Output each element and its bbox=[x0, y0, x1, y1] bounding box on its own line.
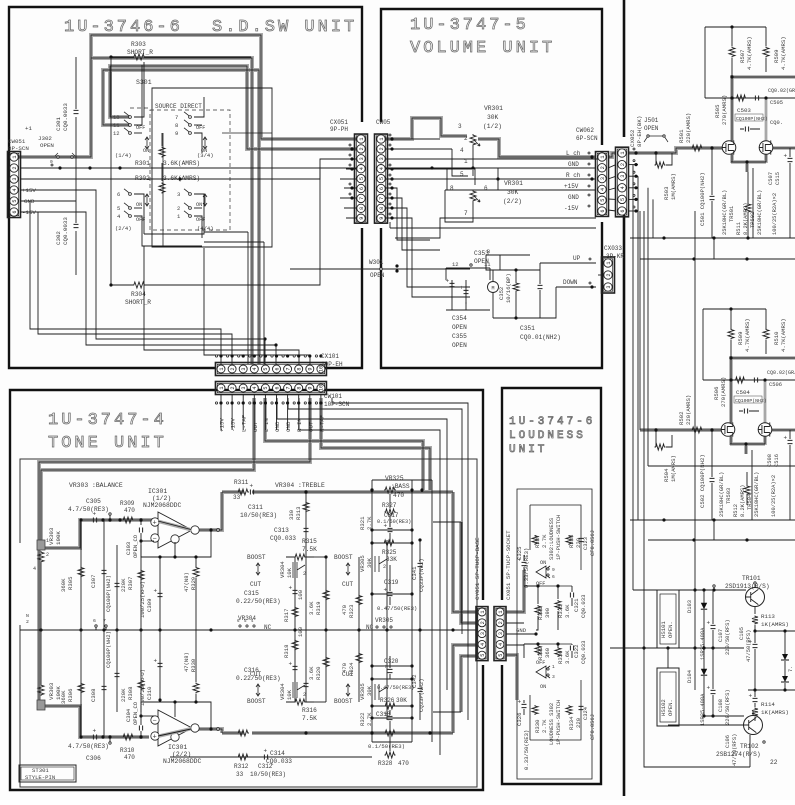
svg-text:R309: R309 bbox=[120, 500, 135, 507]
capacitor C351 bbox=[538, 285, 543, 288]
svg-text:CQ100P(NH2): CQ100P(NH2) bbox=[105, 575, 112, 612]
bottom edge R312 C312 bbox=[170, 756, 372, 758]
svg-text:9: 9 bbox=[552, 567, 555, 573]
svg-text:3.6K: 3.6K bbox=[308, 666, 315, 680]
svg-text:+: + bbox=[153, 734, 157, 742]
capacitor C354 C355 OPEN bbox=[450, 283, 455, 286]
svg-text:8.2K(AMRS): 8.2K(AMRS) bbox=[740, 485, 746, 517]
svg-text:470: 470 bbox=[393, 492, 404, 499]
svg-text:OPEN.: OPEN. bbox=[667, 621, 674, 638]
wire pin6 -15V bbox=[20, 212, 86, 300]
svg-text:47(N8): 47(N8) bbox=[183, 652, 190, 672]
svg-text:0.1/50(RE3): 0.1/50(RE3) bbox=[377, 519, 411, 525]
svg-text:VR325: VR325 bbox=[385, 475, 404, 482]
svg-text:9: 9 bbox=[379, 217, 385, 220]
svg-text:22: 22 bbox=[770, 759, 778, 766]
svg-text:C301: C301 bbox=[55, 117, 62, 131]
svg-text:C306: C306 bbox=[86, 755, 101, 762]
svg-text:3: 3 bbox=[498, 632, 504, 635]
svg-text:1: 1 bbox=[606, 261, 612, 264]
svg-text:1: 1 bbox=[464, 158, 468, 165]
svg-text:C505: C505 bbox=[770, 100, 783, 106]
svg-text:10: 10 bbox=[319, 385, 325, 391]
svg-text:360K: 360K bbox=[60, 690, 67, 704]
svg-text:R328: R328 bbox=[378, 760, 393, 767]
svg-text:1SR35-400A: 1SR35-400A bbox=[700, 627, 706, 660]
tone center line bbox=[20, 629, 477, 631]
svg-text:2: 2 bbox=[464, 135, 468, 142]
svg-text:GND: GND bbox=[274, 421, 281, 432]
svg-text:33K: 33K bbox=[386, 556, 397, 563]
svg-text:C515: C515 bbox=[775, 172, 781, 185]
svg-text:R313: R313 bbox=[295, 507, 302, 520]
svg-text:8P-EH(BK): 8P-EH(BK) bbox=[636, 116, 643, 147]
svg-text:6: 6 bbox=[552, 574, 555, 580]
svg-text:10/16(BP): 10/16(BP) bbox=[505, 273, 512, 303]
svg-text:CX051 5P-TUCP-SOCKET: CX051 5P-TUCP-SOCKET bbox=[505, 530, 512, 600]
resistor R330 2.7K bbox=[532, 705, 538, 715]
svg-text:6: 6 bbox=[379, 187, 385, 190]
svg-text:CW101: CW101 bbox=[324, 393, 342, 400]
R channel mirror - pot VR303 2/2 bbox=[37, 700, 45, 710]
svg-text:11: 11 bbox=[113, 122, 120, 129]
svg-text:OUT: OUT bbox=[252, 421, 259, 432]
resistor R114 1K bbox=[752, 708, 758, 717]
svg-text:270(AMRS): 270(AMRS) bbox=[721, 95, 728, 125]
svg-text:470: 470 bbox=[124, 507, 135, 514]
svg-text:30K: 30K bbox=[366, 685, 373, 696]
svg-text:C319: C319 bbox=[384, 579, 399, 586]
svg-text:C506: C506 bbox=[769, 382, 782, 388]
svg-text:R114: R114 bbox=[761, 701, 775, 708]
svg-text:R501: R501 bbox=[678, 129, 685, 143]
svg-text:1: 1 bbox=[480, 610, 486, 613]
svg-text:R504: R504 bbox=[663, 468, 670, 482]
resistor R324 470 bbox=[358, 630, 360, 702]
svg-text:IC301: IC301 bbox=[168, 744, 187, 751]
svg-text:5: 5 bbox=[12, 199, 18, 202]
svg-text:C503: C503 bbox=[737, 107, 751, 114]
svg-text:4: 4 bbox=[480, 643, 486, 646]
svg-text:4: 4 bbox=[620, 186, 626, 189]
svg-text:4.7K(AMRS): 4.7K(AMRS) bbox=[746, 36, 753, 70]
svg-text:+: + bbox=[446, 278, 450, 285]
svg-text:6: 6 bbox=[93, 618, 96, 624]
svg-text:CUT: CUT bbox=[250, 581, 261, 588]
S.D.SW unit box bbox=[9, 7, 362, 368]
feedback loop R bbox=[141, 702, 211, 728]
svg-text:C307: C307 bbox=[90, 575, 97, 588]
svg-text:OPEN.: OPEN. bbox=[667, 699, 674, 716]
svg-text:VR305: VR305 bbox=[359, 683, 366, 700]
svg-text:+: + bbox=[153, 520, 157, 528]
TR101 emitter chain bbox=[754, 607, 756, 614]
svg-text:R113: R113 bbox=[761, 613, 775, 620]
svg-text:C351: C351 bbox=[520, 325, 535, 332]
svg-text:100/25(R2A)×2: 100/25(R2A)×2 bbox=[772, 193, 778, 235]
svg-text:BOOST: BOOST bbox=[247, 554, 266, 561]
svg-text:9P-PH: 9P-PH bbox=[330, 126, 348, 133]
svg-text:C305: C305 bbox=[86, 498, 101, 505]
svg-text:NJM2068DDC: NJM2068DDC bbox=[163, 758, 202, 765]
VOLUME unit box bbox=[381, 9, 602, 368]
svg-text:220/50(RFS): 220/50(RFS) bbox=[725, 689, 731, 725]
svg-text:2: 2 bbox=[606, 273, 612, 276]
capacitor C323 CF0.056J bbox=[579, 538, 584, 541]
svg-text:(2/4): (2/4) bbox=[115, 225, 132, 232]
svg-text:R509: R509 bbox=[773, 50, 780, 63]
svg-text:47/50(RFS): 47/50(RFS) bbox=[732, 734, 738, 766]
svg-text:3: 3 bbox=[379, 157, 385, 160]
svg-text:4.7K(AMRS): 4.7K(AMRS) bbox=[780, 36, 787, 70]
svg-text:10P-SCN: 10P-SCN bbox=[324, 401, 350, 408]
svg-text:TR501: TR501 bbox=[729, 206, 735, 222]
svg-text:12: 12 bbox=[113, 130, 120, 137]
NC stubs left bbox=[95, 625, 97, 627]
svg-text:C303: C303 bbox=[125, 542, 132, 555]
svg-text:BOOST: BOOST bbox=[334, 698, 353, 705]
long verticals from CX052 bbox=[644, 211, 750, 767]
svg-text:2: 2 bbox=[12, 166, 18, 169]
svg-text:TONE UNIT: TONE UNIT bbox=[48, 434, 167, 453]
svg-text:CQ0.02(GR/BL): CQ0.02(GR/BL) bbox=[767, 370, 795, 376]
svg-text:DOWN: DOWN bbox=[563, 279, 578, 286]
connector CW051 8P-SCN left bbox=[8, 152, 21, 218]
svg-text:CQ0.0033: CQ0.0033 bbox=[62, 217, 69, 245]
svg-text:SOURCE DIRECT: SOURCE DIRECT bbox=[155, 103, 202, 110]
svg-text:R503: R503 bbox=[663, 187, 670, 200]
svg-text:2: 2 bbox=[177, 205, 180, 212]
svg-text:+: + bbox=[749, 693, 753, 700]
svg-text:30K: 30K bbox=[366, 557, 373, 568]
svg-text:+: + bbox=[93, 511, 97, 518]
svg-text:R312: R312 bbox=[234, 763, 249, 770]
svg-text:100: 100 bbox=[297, 626, 304, 637]
feedback loop bbox=[141, 531, 211, 557]
pot VR303 wire to center bbox=[40, 577, 42, 630]
resistor R333 220 bbox=[566, 535, 572, 545]
connector CW062 6P-SCN bbox=[596, 152, 609, 217]
svg-text:2: 2 bbox=[26, 619, 29, 625]
cap near motor bbox=[513, 282, 519, 292]
resistor R304 SHORT_R bbox=[133, 282, 146, 288]
push switch L symbol bbox=[536, 566, 550, 578]
svg-text:R330: R330 bbox=[534, 719, 541, 733]
svg-text:TR101: TR101 bbox=[742, 575, 761, 582]
svg-text:2SD1913(R/S): 2SD1913(R/S) bbox=[725, 583, 770, 590]
svg-text:1: 1 bbox=[379, 137, 385, 140]
HS101 OPEN box bbox=[657, 590, 679, 648]
svg-text:8: 8 bbox=[379, 207, 385, 210]
svg-text:+: + bbox=[289, 661, 293, 668]
svg-text:4: 4 bbox=[252, 386, 258, 389]
page divider bbox=[623, 0, 626, 796]
svg-text:6: 6 bbox=[620, 209, 626, 212]
HS102 OPEN box bbox=[657, 668, 679, 726]
svg-text:8P-SCN: 8P-SCN bbox=[8, 145, 29, 152]
svg-text:TR102: TR102 bbox=[740, 743, 759, 750]
svg-text:CF0.056J: CF0.056J bbox=[590, 530, 596, 556]
svg-text:C342: C342 bbox=[411, 675, 418, 688]
svg-text:+: + bbox=[384, 523, 388, 530]
svg-text:R301: R301 bbox=[135, 160, 150, 167]
svg-text:C507: C507 bbox=[768, 172, 774, 185]
transistor TR102 bbox=[744, 716, 763, 735]
svg-text:−: − bbox=[153, 536, 157, 544]
svg-text:HS101: HS101 bbox=[660, 621, 667, 638]
svg-text:CW05: CW05 bbox=[376, 119, 391, 126]
svg-text:1K(AMRS): 1K(AMRS) bbox=[761, 709, 789, 716]
svg-text:R506: R506 bbox=[713, 387, 720, 400]
svg-text:C354: C354 bbox=[452, 315, 467, 322]
svg-text:CQ100P(NH2): CQ100P(NH2) bbox=[105, 631, 112, 668]
SOURCE DIRECT dashed box bbox=[150, 110, 230, 230]
svg-text:2: 2 bbox=[230, 367, 236, 370]
svg-text:CUT: CUT bbox=[342, 671, 353, 678]
capacitor C321 CQ0.033 bbox=[570, 593, 573, 598]
svg-text:+: + bbox=[460, 285, 464, 292]
resistor R509 4.7K bbox=[763, 47, 769, 58]
svg-text:C322: C322 bbox=[573, 645, 580, 658]
svg-text:CQ0.01(NH2): CQ0.01(NH2) bbox=[520, 334, 561, 341]
svg-text:7: 7 bbox=[175, 114, 178, 121]
switch block S301 outline bbox=[152, 88, 272, 247]
svg-text:R509: R509 bbox=[737, 332, 744, 345]
svg-text:7.5K: 7.5K bbox=[302, 546, 317, 553]
svg-text:C313: C313 bbox=[274, 527, 289, 534]
wire R303 row bbox=[111, 56, 133, 58]
svg-text:CQ0.: CQ0. bbox=[770, 120, 783, 126]
svg-text:8: 8 bbox=[297, 367, 303, 370]
svg-text:HS102: HS102 bbox=[660, 699, 667, 716]
resistor R305 360K bbox=[80, 520, 82, 630]
resistor R325 33K bbox=[372, 530, 412, 594]
svg-text:47/50(RFS): 47/50(RFS) bbox=[746, 630, 752, 662]
svg-text:CF0.056J: CF0.056J bbox=[590, 714, 596, 740]
svg-text:R303: R303 bbox=[131, 41, 146, 48]
black verticals mid bundle bbox=[247, 232, 249, 364]
svg-text:10: 10 bbox=[113, 114, 120, 121]
svg-text:ON: ON bbox=[136, 202, 142, 208]
svg-text:R337: R337 bbox=[534, 535, 541, 548]
svg-text:30K: 30K bbox=[396, 697, 407, 704]
wire pin5 GND bbox=[20, 200, 76, 202]
svg-text:VR301: VR301 bbox=[484, 105, 503, 112]
svg-text:GND: GND bbox=[285, 421, 292, 432]
svg-text:-15V: -15V bbox=[230, 418, 237, 432]
mid node row bbox=[748, 689, 795, 691]
svg-text:10K: 10K bbox=[286, 689, 293, 700]
svg-text:1: 1 bbox=[620, 151, 626, 154]
svg-text:2.7K: 2.7K bbox=[541, 719, 548, 733]
top rail block1 bbox=[705, 26, 766, 28]
svg-text:N: N bbox=[26, 613, 29, 619]
svg-text:−: − bbox=[153, 718, 157, 726]
svg-text:L-TAP: L-TAP bbox=[241, 414, 248, 432]
svg-text:CY051 5P-TUCP-BASE: CY051 5P-TUCP-BASE bbox=[474, 537, 481, 600]
svg-text:R502: R502 bbox=[678, 412, 685, 425]
resistor R334 220 bbox=[566, 705, 572, 715]
switch inner wires bbox=[134, 62, 144, 117]
svg-text:NC: NC bbox=[264, 624, 272, 631]
wires CW051 right pins to volume staircase bbox=[386, 138, 440, 140]
svg-text:220(AMRS): 220(AMRS) bbox=[685, 395, 692, 425]
inner loop L bbox=[530, 505, 581, 570]
svg-text:12: 12 bbox=[452, 261, 459, 268]
svg-text:4: 4 bbox=[498, 643, 504, 646]
svg-text:2: 2 bbox=[480, 621, 486, 624]
resistor R336 3.6K bbox=[555, 647, 561, 657]
svg-text:2: 2 bbox=[46, 552, 49, 558]
connector CX052 8P-EH bbox=[608, 165, 616, 211]
FET pair TR501 L bbox=[722, 141, 736, 155]
svg-text:(1/2): (1/2) bbox=[152, 495, 171, 502]
svg-text:CX101: CX101 bbox=[321, 353, 339, 360]
svg-text:9: 9 bbox=[359, 217, 365, 220]
svg-text:CQ100P(NH2): CQ100P(NH2) bbox=[735, 398, 767, 404]
svg-text:R326: R326 bbox=[380, 697, 395, 704]
svg-text:7.: 7. bbox=[788, 666, 794, 672]
capacitor C314 CQ0.033 bbox=[304, 683, 309, 686]
svg-text:1: 1 bbox=[219, 386, 225, 389]
svg-text:5: 5 bbox=[620, 198, 626, 201]
svg-text:R320: R320 bbox=[315, 666, 322, 680]
svg-text:470: 470 bbox=[124, 754, 135, 761]
svg-text:100: 100 bbox=[297, 589, 304, 600]
svg-text:C312: C312 bbox=[258, 763, 273, 770]
svg-text:R306: R306 bbox=[67, 689, 74, 702]
svg-text:1: 1 bbox=[498, 610, 504, 613]
svg-text:8: 8 bbox=[450, 185, 454, 192]
TR102 base row bbox=[668, 724, 744, 726]
svg-text:390: 390 bbox=[544, 607, 551, 618]
bus volume to FET R bbox=[710, 428, 713, 431]
capacitor C324 CF0.056J bbox=[579, 706, 584, 709]
svg-text:4: 4 bbox=[359, 167, 365, 170]
op-amp IC301 1/2 bbox=[158, 512, 192, 548]
svg-text:R319: R319 bbox=[315, 602, 322, 615]
jumper J302 bbox=[58, 156, 72, 158]
svg-text:3: 3 bbox=[600, 177, 606, 180]
svg-text:270(AMRS): 270(AMRS) bbox=[720, 377, 727, 407]
svg-text:9: 9 bbox=[175, 130, 178, 137]
svg-text:3: 3 bbox=[480, 632, 486, 635]
svg-text:5: 5 bbox=[263, 367, 269, 370]
wire pin4 +15V bbox=[20, 190, 96, 240]
svg-text:CUT: CUT bbox=[250, 671, 261, 678]
svg-text:+: + bbox=[289, 585, 293, 592]
svg-text:+: + bbox=[518, 557, 522, 564]
bottom rail to HS bbox=[667, 648, 669, 668]
svg-text:VR303 :BALANCE: VR303 :BALANCE bbox=[69, 482, 123, 489]
bus volume to FET L bbox=[654, 151, 657, 154]
svg-text:1U-3747-5: 1U-3747-5 bbox=[410, 16, 529, 35]
svg-text:220: 220 bbox=[575, 717, 582, 728]
svg-text:3: 3 bbox=[606, 285, 612, 288]
svg-text:R334: R334 bbox=[568, 716, 575, 730]
svg-text:VR304: VR304 bbox=[238, 615, 256, 622]
svg-text:4.7/50(RE3): 4.7/50(RE3) bbox=[68, 506, 109, 513]
svg-text:B: B bbox=[487, 249, 490, 255]
svg-text:1M(AMRS): 1M(AMRS) bbox=[670, 455, 677, 482]
svg-text:OPEN: OPEN bbox=[644, 125, 659, 132]
svg-text:R302: R302 bbox=[135, 175, 150, 182]
svg-text:33: 33 bbox=[233, 494, 241, 501]
svg-text:100/25(R2A)×2: 100/25(R2A)×2 bbox=[771, 475, 777, 517]
svg-text:6: 6 bbox=[12, 210, 18, 213]
svg-text:R310: R310 bbox=[120, 747, 135, 754]
svg-text:C302: C302 bbox=[55, 231, 62, 245]
svg-text:C108: C108 bbox=[718, 699, 724, 712]
svg-text:UP: UP bbox=[573, 255, 581, 262]
svg-text:CX051: CX051 bbox=[330, 119, 348, 126]
svg-text:5: 5 bbox=[359, 177, 365, 180]
svg-text:GND: GND bbox=[516, 627, 527, 634]
svg-text:3: 3 bbox=[241, 386, 247, 389]
svg-text:2: 2 bbox=[620, 163, 626, 166]
svg-text:BOOST: BOOST bbox=[247, 698, 266, 705]
svg-text:(1/4): (1/4) bbox=[115, 152, 132, 159]
resistor R319 3.6K bbox=[325, 557, 327, 630]
svg-text:3: 3 bbox=[177, 191, 180, 198]
svg-text:2: 2 bbox=[600, 166, 606, 169]
resistor R507 4.7K bbox=[729, 47, 735, 58]
svg-text:7: 7 bbox=[359, 197, 365, 200]
svg-text:C106: C106 bbox=[725, 735, 731, 748]
svg-text:D103: D103 bbox=[687, 600, 693, 613]
svg-text:0.1/50(RE3): 0.1/50(RE3) bbox=[368, 743, 405, 750]
svg-text:3: 3 bbox=[241, 367, 247, 370]
gray rail block2 bbox=[730, 358, 795, 454]
svg-text:1P-PUSH-SWITCH: 1P-PUSH-SWITCH bbox=[556, 515, 562, 560]
resistor R337 2.7K bbox=[532, 535, 538, 545]
pot VR303 balance L bbox=[37, 540, 45, 550]
svg-text:R511: R511 bbox=[736, 222, 742, 235]
svg-text:C318: C318 bbox=[376, 711, 391, 718]
resistor R317 100 bbox=[292, 607, 298, 618]
svg-text:C341: C341 bbox=[411, 566, 418, 580]
svg-text:R317: R317 bbox=[283, 609, 290, 622]
svg-text:D104: D104 bbox=[687, 670, 693, 683]
wire pin3 row bbox=[20, 159, 356, 179]
svg-text:VR304: VR304 bbox=[279, 561, 286, 578]
svg-text:6: 6 bbox=[274, 367, 280, 370]
svg-text:7: 7 bbox=[379, 197, 385, 200]
resistor R307 220K bbox=[140, 545, 142, 630]
svg-text:C310: C310 bbox=[146, 686, 153, 700]
svg-text:220K: 220K bbox=[120, 578, 127, 592]
gray rail around FET block1 bbox=[731, 77, 795, 172]
svg-text:R505: R505 bbox=[714, 105, 721, 118]
volume wires nested bbox=[439, 138, 441, 140]
center rail output bbox=[610, 647, 744, 649]
svg-text:OPEN_CO: OPEN_CO bbox=[132, 701, 139, 725]
svg-text:100K: 100K bbox=[55, 531, 62, 545]
svg-text:2.7K: 2.7K bbox=[366, 712, 373, 726]
svg-text:4: 4 bbox=[460, 147, 464, 154]
TONE unit box bbox=[10, 390, 483, 790]
svg-text:1: 1 bbox=[359, 137, 365, 140]
svg-text:1: 1 bbox=[219, 367, 225, 370]
push switch R symbol bbox=[536, 666, 550, 678]
svg-text:5: 5 bbox=[263, 386, 269, 389]
svg-text:M: M bbox=[491, 286, 494, 292]
svg-text:5: 5 bbox=[117, 205, 120, 212]
resistor R332 360 bbox=[535, 645, 541, 655]
svg-text:4.7K(AMRS): 4.7K(AMRS) bbox=[744, 318, 751, 352]
svg-text:1U-3747-6: 1U-3747-6 bbox=[509, 416, 595, 428]
svg-text:S302:LOUDNESS: S302:LOUDNESS bbox=[549, 518, 555, 560]
